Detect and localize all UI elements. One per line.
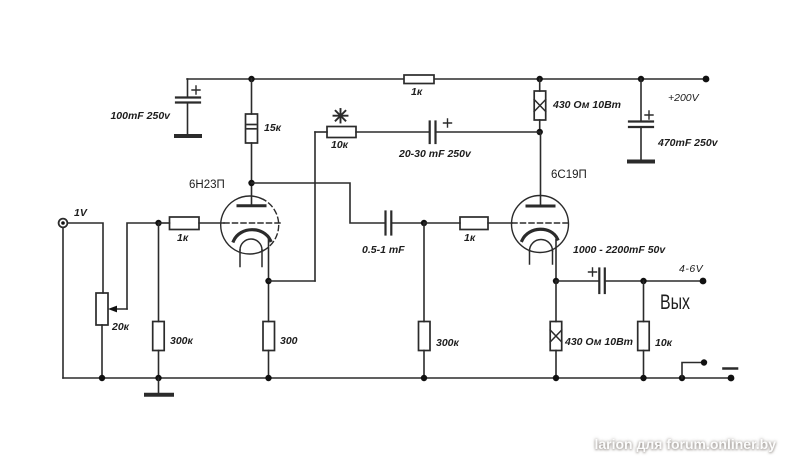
node V2 grid network junction — [421, 220, 427, 226]
R12 value label 300 — [280, 335, 298, 347]
tube V1 6N23P envelope — [221, 196, 279, 254]
net label 4-6V — [679, 263, 704, 275]
svg-text:300к: 300к — [170, 335, 194, 347]
node top rail / R2 junction — [248, 76, 254, 82]
R3 value label 1k — [177, 232, 189, 244]
tube V2 anode — [527, 132, 554, 206]
resistor R5 1k decoupling on rail — [404, 75, 434, 84]
tube V1 heater — [240, 239, 262, 267]
node R9 bottom on rail — [553, 375, 559, 381]
C5 value label 0.5-1 mF — [362, 244, 405, 256]
net label +200V — [668, 92, 700, 104]
svg-text:1000 - 2200mF 50v: 1000 - 2200mF 50v — [573, 244, 666, 256]
capacitor C5 0.5-1 mF coupling — [386, 212, 425, 235]
svg-text:20к: 20к — [111, 321, 130, 333]
R8 value label 430 Om 10Vt — [552, 99, 621, 111]
tube V2 heater — [530, 240, 553, 264]
wire bottom ground rail — [63, 377, 731, 379]
capacitor C3 20-30mF 250v — [430, 119, 540, 143]
node V2 cathode junction — [553, 278, 559, 284]
svg-text:300: 300 — [280, 335, 298, 347]
svg-text:470mF 250v: 470mF 250v — [657, 137, 719, 149]
R10 value label 10k — [655, 337, 673, 349]
node R11 bottom on rail — [155, 375, 161, 381]
svg-text:300к: 300к — [436, 337, 460, 349]
resistor R11 300k grid leak V1 — [153, 223, 165, 378]
node output return terminal — [701, 359, 707, 365]
tube V1 name label 6N23P — [189, 179, 225, 191]
svg-text:6С19П: 6С19П — [551, 169, 587, 181]
C4 value label 470mF 250v — [657, 137, 719, 149]
svg-text:1к: 1к — [411, 86, 423, 98]
wire output return terminal branch — [682, 363, 704, 379]
node R12 bottom on rail — [265, 375, 271, 381]
resistor R8 430 Ohm 10W anode — [534, 79, 546, 132]
node top rail / R8 junction — [537, 76, 543, 82]
R7 value label 300k — [436, 337, 460, 349]
C1 value label 100mF 250v — [110, 110, 171, 122]
capacitor C6 1000-2200mF 50v output — [556, 268, 703, 293]
svg-text:+200V: +200V — [668, 92, 700, 104]
svg-text:430 Ом 10Вт: 430 Ом 10Вт — [564, 336, 633, 348]
wire top power rail — [187, 78, 706, 80]
svg-text:430 Ом 10Вт: 430 Ом 10Вт — [552, 99, 621, 111]
watermark larion dlya forum.onliner.by — [594, 436, 776, 452]
node V1 grid network junction — [155, 220, 161, 226]
wire feedback riser — [314, 132, 316, 281]
wire V1 cathode to feedback riser — [269, 280, 316, 282]
tube V2 cathode — [522, 229, 558, 281]
node top rail / C4 junction — [638, 76, 644, 82]
node +200V rail end terminal — [703, 76, 710, 83]
svg-text:1V: 1V — [74, 207, 88, 219]
resistor R3 1k grid stopper V1 — [159, 217, 200, 230]
wire V1 anode to C5 — [252, 183, 386, 223]
svg-text:Вых: Вых — [660, 291, 690, 314]
ground symbol — [146, 378, 172, 395]
tube V2 6S19P envelope — [512, 196, 569, 253]
svg-text:0.5-1 mF: 0.5-1 mF — [362, 244, 405, 256]
svg-text:6Н23П: 6Н23П — [189, 179, 225, 191]
node tube V2 anode junction — [537, 129, 543, 135]
R11 value label 300k — [170, 335, 194, 347]
svg-text:10к: 10к — [331, 139, 349, 151]
resistor R7 300k grid leak V2 — [419, 223, 431, 378]
minus polarity mark — [724, 367, 738, 370]
R2 value label 15k — [264, 122, 282, 134]
resistor R6 1k grid stopper V2 — [424, 217, 512, 230]
wire input shield down — [62, 228, 64, 378]
wire R1 wiper to grid node — [127, 223, 159, 309]
tube V1 anode — [238, 183, 265, 206]
J1 label 1V — [74, 207, 88, 219]
svg-text:20-30 mF 250v: 20-30 mF 250v — [398, 148, 472, 160]
svg-text:1к: 1к — [464, 232, 476, 244]
tube V2 name label 6S19P — [551, 169, 587, 181]
svg-text:100mF 250v: 100mF 250v — [110, 110, 171, 122]
C6 value label 1000-2200mF 50v — [573, 244, 666, 256]
node pot bottom on rail — [99, 375, 105, 381]
wire input top — [68, 223, 103, 293]
tube V1 grid — [199, 222, 280, 224]
svg-text:larion для forum.onliner.by: larion для forum.onliner.by — [594, 436, 776, 452]
C3 value label 20-30 mF 250v — [398, 148, 472, 160]
potentiometer R1 20k — [96, 293, 127, 378]
R6 value label 1k — [464, 232, 476, 244]
capacitor C4 470mF 250v electrolytic — [629, 79, 653, 162]
tube V1 cathode — [234, 230, 271, 281]
node rail right end terminal — [728, 375, 735, 382]
tube V2 grid — [512, 222, 568, 224]
capacitor C1 100mF 250v electrolytic — [176, 79, 200, 136]
resistor R12 300 cathode V1 — [263, 281, 275, 378]
resistor R9 430 Ohm 10W cathode — [550, 281, 562, 378]
node output terminal 4-6V — [700, 278, 707, 285]
node R7 bottom on rail — [421, 375, 427, 381]
node R10 bottom on rail — [640, 375, 646, 381]
node output network junction — [640, 278, 646, 284]
svg-text:10к: 10к — [655, 337, 673, 349]
R4 select-on-test star mark — [334, 109, 348, 123]
svg-text:15к: 15к — [264, 122, 282, 134]
input connector J1 — [59, 219, 68, 228]
resistor R2 15k plate load — [246, 79, 258, 183]
svg-text:1к: 1к — [177, 232, 189, 244]
resistor R10 10k output load — [638, 281, 650, 378]
node V1 anode junction — [248, 180, 254, 186]
node V1 cathode junction — [265, 278, 271, 284]
svg-text:4-6V: 4-6V — [679, 263, 704, 275]
R1 value label 20k — [111, 321, 130, 333]
output label Vyh — [660, 291, 690, 314]
R4 value label 10k — [331, 139, 349, 151]
R5 value label 1k — [411, 86, 423, 98]
resistor R4 10k feedback — [315, 127, 429, 138]
R9 value label 430 Om 10Vt — [564, 336, 633, 348]
node output return branch on rail — [679, 375, 685, 381]
